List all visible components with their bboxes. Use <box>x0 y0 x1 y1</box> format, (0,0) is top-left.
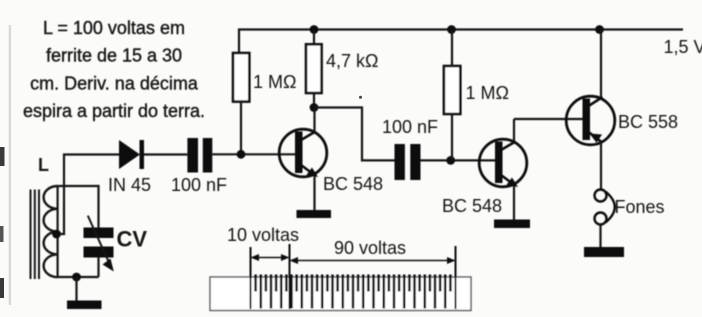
ground: fones <box>584 247 624 257</box>
node: Q1 base junction with R1 <box>237 150 246 159</box>
wire: coil top to CV top <box>58 186 99 228</box>
capacitor C1 100 nF plate 2 <box>203 138 213 173</box>
wire: to ground <box>75 277 77 301</box>
transistor Q1 BC 548 <box>279 108 327 211</box>
svg-text:1 MΩ: 1 MΩ <box>466 83 509 103</box>
svg-text:CV: CV <box>117 227 148 252</box>
fones jack symbol <box>595 190 615 225</box>
wire: fones to ground <box>599 225 601 248</box>
tick left <box>250 247 252 309</box>
capacitor C2 100 nF plate 1 <box>395 144 405 180</box>
svg-text:BC 558: BC 558 <box>618 112 678 132</box>
svg-text:IN 45: IN 45 <box>108 175 151 195</box>
wire: rail to R3 <box>451 30 453 67</box>
svg-text:L = 100 voltas em: L = 100 voltas em <box>43 18 185 38</box>
node: ground junction on coil bottom <box>72 273 81 282</box>
svg-text:10 voltas: 10 voltas <box>227 225 299 245</box>
wire: C1 to Q1 base <box>212 153 300 155</box>
node: rail junction at Q3 emitter <box>595 25 604 34</box>
svg-text:1 MΩ: 1 MΩ <box>253 72 296 92</box>
svg-text:BC 548: BC 548 <box>323 174 383 194</box>
svg-text:L: L <box>38 155 49 175</box>
note text: L = 100 voltas em ferrite <box>23 18 205 121</box>
wire: rail to R2 top <box>313 30 315 45</box>
wire: +1,5V supply rail <box>239 30 683 54</box>
ferrite rod winding diagram <box>210 225 471 311</box>
tick right <box>455 246 457 309</box>
svg-text:cm. Deriv. na décima: cm. Deriv. na décima <box>30 74 199 94</box>
node: Q2 base junction with R3 <box>446 156 455 165</box>
wire: R1 bottom to base node <box>240 102 242 155</box>
speck artifact <box>359 96 362 99</box>
wire: Q2 collector to Q3 base <box>514 118 586 120</box>
svg-text:100 nF: 100 nF <box>171 175 227 195</box>
capacitor C2 100 nF plate 2 <box>410 144 420 180</box>
node: Q1 collector junction <box>310 103 319 112</box>
wire: diode to C1 <box>144 153 187 155</box>
resistor R3 1 MΩ (second stage bias) <box>444 66 460 114</box>
coil L: tap wire to diode <box>57 155 120 235</box>
variable capacitor CV plate 2 <box>84 247 114 258</box>
wire: coil bottom <box>58 276 99 278</box>
transistor Q2 BC 548 <box>479 119 527 220</box>
transistor Q3 BC 558 <box>566 30 615 190</box>
ground: Q2 emitter <box>494 220 530 229</box>
capacitor C1 100 nF plate 1 <box>187 138 198 173</box>
diode D1 IN 45 <box>119 140 140 169</box>
rod body <box>210 277 471 311</box>
wire: CV bottom to ground wire <box>97 258 99 278</box>
svg-text:espira a partir do terra.: espira a partir do terra. <box>23 101 205 121</box>
svg-text:BC 548: BC 548 <box>442 196 502 216</box>
svg-text:Fones: Fones <box>615 197 665 217</box>
inductor L winding: four arcs <box>44 186 58 277</box>
ground: Q1 emitter <box>297 210 332 218</box>
svg-text:4,7 kΩ: 4,7 kΩ <box>326 51 378 71</box>
wire: C2 to Q2 base <box>421 159 501 161</box>
ground: tank circuit <box>67 301 102 310</box>
node: rail junction at R2 top <box>310 25 319 34</box>
windings <box>256 275 451 309</box>
wire: R2 bottom to collector node <box>313 93 315 108</box>
CV arrow <box>88 216 109 262</box>
node: coil tap dot <box>52 230 61 239</box>
svg-text:1,5 V: 1,5 V <box>664 37 702 57</box>
variable capacitor CV plate 1 <box>84 228 114 239</box>
wire: R3 to base node <box>451 114 453 160</box>
tick middle <box>289 244 291 309</box>
svg-text:90 voltas: 90 voltas <box>334 238 406 258</box>
resistor R2 4,7 kΩ (collector load) <box>306 44 322 93</box>
svg-text:100 nF: 100 nF <box>382 117 438 137</box>
svg-text:ferrite de 15 a 30: ferrite de 15 a 30 <box>46 46 182 66</box>
resistor R1 1 MΩ (bias, first stage) <box>233 53 249 102</box>
dimension arrow 90 voltas <box>291 260 454 262</box>
dimension arrow 10 voltas <box>252 257 288 259</box>
ferrite core: three vertical lines <box>30 190 32 280</box>
wire: collector node to coupling cap C2 <box>314 108 395 161</box>
scan artifacts at left edge <box>9 25 11 305</box>
node: rail junction at R3 top <box>447 25 456 34</box>
